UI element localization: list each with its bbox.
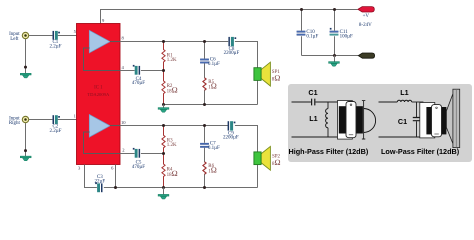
svg-text:+V: +V xyxy=(363,14,370,19)
wire C5 to feedback node xyxy=(141,153,164,155)
svg-text:0.1µF: 0.1µF xyxy=(208,146,220,151)
wire low-pass shunt drop xyxy=(416,102,418,137)
capacitor C1 high-pass xyxy=(312,99,315,106)
svg-text:2: 2 xyxy=(122,148,125,153)
wire ground rail channel 2 xyxy=(104,187,258,189)
wire IC pin 10 output rail channel 2 xyxy=(120,125,228,127)
resistor R5 zigzag recolor xyxy=(203,78,206,91)
node R2 ground rail junction xyxy=(162,103,165,106)
svg-text:8: 8 xyxy=(122,36,125,41)
svg-text:IC 1: IC 1 xyxy=(94,86,103,91)
terminal +V supply xyxy=(358,7,375,12)
node R5 bottom junction xyxy=(203,103,206,106)
svg-text:10: 10 xyxy=(121,120,126,125)
node pin 6 ground rail junction xyxy=(114,186,117,189)
wire input-right jack to ground xyxy=(25,123,27,156)
capacitor C3 22uF xyxy=(95,182,102,192)
inductor L1 low-pass coil xyxy=(397,100,411,102)
wire high-pass bottom xyxy=(292,136,338,138)
node feedback R1 R2 C4 junction xyxy=(162,69,165,72)
wire op-amp B output inside IC xyxy=(110,125,120,127)
wire C8 to speaker SP1 drop xyxy=(235,42,258,105)
wire input-left jack to C1 xyxy=(29,35,52,37)
svg-text:L1: L1 xyxy=(309,114,317,123)
svg-text:3: 3 xyxy=(78,165,81,170)
svg-text:0.1µF: 0.1µF xyxy=(208,62,220,67)
wire C9 to speaker SP2 drop xyxy=(235,126,258,188)
wire IC pin 4 to C4 xyxy=(120,70,135,72)
node junction at input-left ground wire xyxy=(24,66,27,69)
wire high-pass shunt drop xyxy=(327,102,329,137)
node C7 top junction xyxy=(203,124,206,127)
terminal 0V return xyxy=(358,53,374,58)
resistor R6 zigzag recolor xyxy=(203,162,206,175)
svg-text:Right: Right xyxy=(9,121,21,126)
svg-text:2.2µF: 2.2µF xyxy=(49,45,61,50)
wire high-pass C1 to driver xyxy=(316,101,338,103)
svg-text:Left: Left xyxy=(10,37,19,42)
svg-text:8-24V: 8-24V xyxy=(359,23,372,28)
wire C11 branch from +V rail xyxy=(334,10,336,56)
capacitor C1 low-pass xyxy=(413,118,420,121)
wire C6 R5 branch xyxy=(203,42,206,105)
svg-text:2200µF: 2200µF xyxy=(224,51,240,56)
tweeter driver high-pass xyxy=(338,101,376,140)
ground G1 below input-left jack xyxy=(20,73,31,78)
wire ground rail channel 1 xyxy=(164,104,258,106)
node R6 bottom junction xyxy=(203,186,206,189)
svg-text:Low-Pass Filter (12dB): Low-Pass Filter (12dB) xyxy=(381,147,460,156)
resistor R2 18ohm xyxy=(162,71,165,105)
svg-text:100µF: 100µF xyxy=(340,34,353,39)
wire low-pass bottom xyxy=(379,136,424,138)
svg-text:TDA2009A: TDA2009A xyxy=(87,92,110,97)
inductor L1 high-pass coil xyxy=(326,109,328,128)
node R4 ground rail junction xyxy=(162,186,165,189)
svg-text:2200µF: 2200µF xyxy=(223,135,239,140)
input jack J2 (Input Right) xyxy=(22,116,28,122)
wire input-left jack to ground xyxy=(25,39,27,74)
wire C4 to feedback node xyxy=(141,70,164,72)
svg-text:0.1µF: 0.1µF xyxy=(306,34,318,39)
wire low-pass L1 to driver xyxy=(412,101,424,103)
capacitor C5 470uF xyxy=(133,148,140,158)
wire op-amp A output inside IC xyxy=(110,41,120,43)
woofer driver low-pass xyxy=(420,89,460,147)
resistor R4 18ohm xyxy=(162,154,165,188)
svg-text:6: 6 xyxy=(111,165,114,170)
op-amp IC1 body TDA2009A xyxy=(77,24,121,165)
capacitor C2 2.2uF xyxy=(53,115,60,124)
capacitor C10 0.1uF xyxy=(297,31,306,36)
wire power ground rail xyxy=(302,55,359,57)
svg-text:High-Pass Filter (12dB): High-Pass Filter (12dB) xyxy=(289,147,369,156)
capacitor C9 2200uF xyxy=(228,121,236,130)
wire IC pin 3 drop to ground rail xyxy=(85,165,97,188)
wire op-amp B feedback inside IC xyxy=(84,132,121,154)
resistor R1 1.2K xyxy=(162,42,165,71)
node pin8 rail R1 junction xyxy=(162,40,165,43)
ground G5 power rail xyxy=(329,56,340,67)
wire low-pass top left to L1 xyxy=(379,101,398,103)
node C6 top junction xyxy=(203,40,206,43)
wire IC pin 9 to +V rail xyxy=(101,10,358,24)
wire C1 to IC pin 5 xyxy=(58,35,90,37)
capacitor C7 0.1uF xyxy=(200,143,209,148)
ground G2 below input-right jack xyxy=(20,156,31,161)
wire IC pin 6 drop xyxy=(115,165,117,188)
capacitor C1 2.2uF xyxy=(53,31,60,40)
ground G4 channel 2 xyxy=(158,188,169,200)
svg-text:470µF: 470µF xyxy=(132,165,145,170)
op-amp A triangle xyxy=(89,30,110,53)
svg-text:1.2K: 1.2K xyxy=(167,58,177,63)
svg-text:4: 4 xyxy=(122,65,125,70)
filter info panel background xyxy=(288,84,472,162)
speaker SP2 xyxy=(254,146,271,170)
node C11 top junction xyxy=(333,8,336,11)
wire IC pin 2 to C5 xyxy=(120,153,135,155)
capacitor C6 0.1uF xyxy=(200,59,209,64)
svg-text:1.2K: 1.2K xyxy=(167,143,177,148)
capacitor C4 470uF xyxy=(133,65,140,75)
node feedback R3 R4 C5 junction xyxy=(162,152,165,155)
wire C7 R6 branch xyxy=(203,126,206,188)
wire high-pass top left to C1 xyxy=(292,101,311,103)
wire C10 branch from +V rail xyxy=(301,10,303,56)
capacitor C11 100uF xyxy=(330,28,339,36)
speaker SP1 xyxy=(254,62,271,86)
wire input-right jack to C2 xyxy=(29,119,52,121)
resistor R3 1.2K xyxy=(162,126,165,154)
node C10 top junction xyxy=(300,8,303,11)
ground G3 channel 1 xyxy=(158,105,169,113)
svg-text:22µF: 22µF xyxy=(94,180,105,185)
input jack J1 (Input Left) xyxy=(22,32,28,38)
svg-text:2.2µF: 2.2µF xyxy=(49,129,61,134)
svg-text:9: 9 xyxy=(102,18,105,23)
wire IC pin 8 output rail channel 1 xyxy=(120,41,228,43)
svg-text:470µF: 470µF xyxy=(132,81,145,86)
node C11 ground junction xyxy=(333,54,336,57)
node pin10 rail R3 junction xyxy=(162,124,165,127)
svg-text:C1: C1 xyxy=(308,88,317,97)
svg-text:L1: L1 xyxy=(400,88,408,97)
op-amp B triangle xyxy=(89,115,110,138)
wire C2 to IC pin 1 xyxy=(58,119,90,121)
node junction at input-right ground wire xyxy=(24,149,27,152)
wire op-amp A feedback inside IC xyxy=(84,48,121,71)
capacitor C8 2200uF xyxy=(228,37,236,46)
svg-text:C1: C1 xyxy=(398,117,407,126)
